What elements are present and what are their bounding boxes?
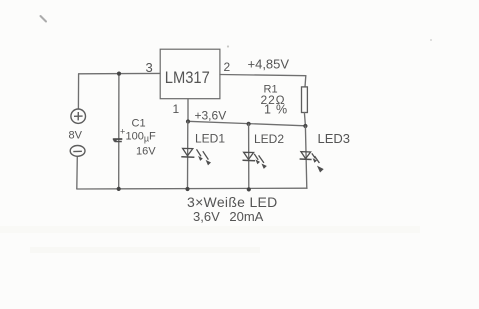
wire bottom rail xyxy=(77,187,307,190)
battery positive terminal xyxy=(71,109,86,123)
svg-text:16V: 16V xyxy=(136,145,156,157)
svg-text:+4,85V: +4,85V xyxy=(248,56,290,71)
wire top-left rail (battery+ to LM317 pin 3) xyxy=(79,72,160,74)
svg-text:LED2: LED2 xyxy=(254,132,284,146)
svg-text:LM317: LM317 xyxy=(165,68,210,87)
wire pin 2 to R1 top corner xyxy=(220,75,306,76)
wire battery bottom lead xyxy=(76,156,79,189)
wire +3,6V rail xyxy=(188,121,306,126)
node junction bottom rail / LED1 xyxy=(185,187,189,191)
node junction bottom rail / LED2 xyxy=(247,187,251,191)
svg-text:3×Weiße LED: 3×Weiße LED xyxy=(187,194,278,210)
svg-text:LED3: LED3 xyxy=(318,131,351,146)
wire LED3 branch xyxy=(305,126,306,188)
LED D1 symbol xyxy=(181,148,210,164)
wire pin 1 lead xyxy=(187,99,189,122)
svg-text:2: 2 xyxy=(224,60,231,74)
svg-text:+: + xyxy=(120,127,125,137)
capacitor C1 plates xyxy=(113,138,123,141)
wire R1 top lead xyxy=(304,76,307,87)
LED D2 symbol xyxy=(243,152,267,168)
svg-text:1%: 1% xyxy=(264,103,292,117)
node junction rail / LED2 xyxy=(247,122,251,126)
node junction bottom rail / C1 xyxy=(117,187,121,191)
wire LED1 branch xyxy=(187,122,189,190)
svg-text:LED1: LED1 xyxy=(195,131,225,145)
wire R1 bottom lead xyxy=(304,113,305,126)
resistor R1 body xyxy=(302,87,308,113)
svg-text:1: 1 xyxy=(173,102,180,116)
wire capacitor branch xyxy=(118,74,120,189)
wire LED2 branch xyxy=(248,124,250,189)
svg-text:C1: C1 xyxy=(132,117,146,129)
battery negative terminal xyxy=(70,146,85,157)
op-amp regulator U1 LM317 box xyxy=(160,49,220,98)
svg-text:8V: 8V xyxy=(69,130,83,142)
wire battery top lead xyxy=(77,74,79,109)
svg-text:+3,6V: +3,6V xyxy=(195,108,227,122)
node junction pin1 / LED1 xyxy=(186,119,190,123)
node junction top rail / C1 xyxy=(117,72,121,76)
LED D3 symbol xyxy=(300,152,323,172)
svg-text:3: 3 xyxy=(146,60,153,75)
node junction rail / R1 / LED3 xyxy=(303,124,307,128)
svg-text:100µF: 100µF xyxy=(126,130,157,143)
